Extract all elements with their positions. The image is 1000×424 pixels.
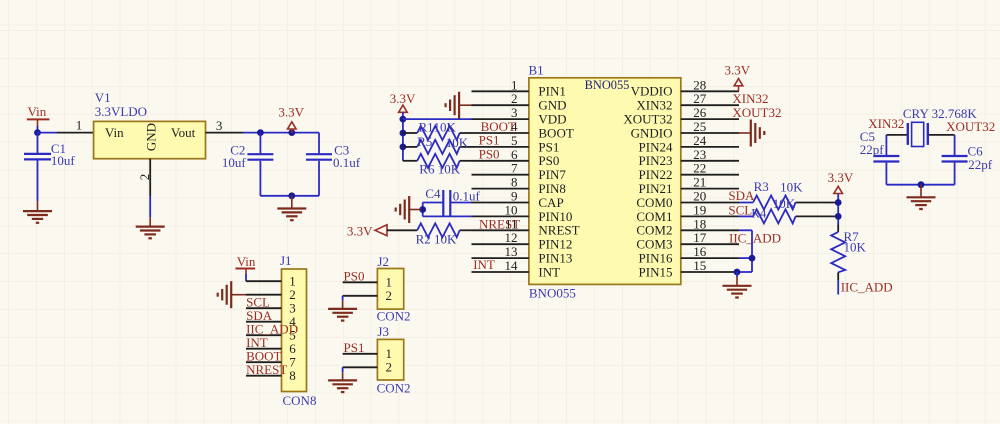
svg-text:8: 8 (289, 368, 296, 383)
ic pin 22 PIN22 (639, 161, 739, 182)
svg-text:22pf: 22pf (860, 142, 885, 157)
power port 3.3V right rail (828, 170, 854, 194)
svg-text:INT: INT (473, 257, 495, 272)
svg-text:25: 25 (693, 119, 706, 134)
svg-text:BNO055: BNO055 (529, 285, 576, 300)
J3 pin 1 (343, 346, 392, 361)
svg-text:19: 19 (693, 202, 706, 217)
svg-text:VDD: VDD (538, 112, 566, 127)
svg-text:INT: INT (538, 264, 560, 279)
power port Vin at J1 (235, 254, 256, 274)
ic pin 17 COM3 (636, 230, 739, 251)
label J1 designator (280, 253, 292, 268)
svg-text:J3: J3 (377, 324, 389, 339)
svg-text:COM0: COM0 (636, 195, 672, 210)
svg-text:26: 26 (693, 105, 707, 120)
capacitor C6 (942, 135, 968, 185)
ic pin 3 VDD (472, 105, 567, 126)
svg-text:3.3V: 3.3V (278, 105, 304, 120)
svg-text:GND: GND (538, 98, 566, 113)
svg-text:SDA: SDA (728, 188, 755, 203)
ic pin 18 COM2 (636, 216, 739, 237)
svg-text:COM1: COM1 (636, 209, 672, 224)
J1 pin 8 (246, 368, 296, 383)
V1 pin name GND (rotated) (144, 123, 159, 151)
svg-text:5: 5 (511, 133, 518, 148)
ground under C1 (23, 201, 52, 223)
svg-text:3: 3 (216, 118, 223, 133)
node crystal ground (918, 181, 925, 188)
net label INT on J1 pin 6 (246, 335, 268, 350)
svg-text:R1: R1 (419, 119, 434, 134)
label V1 designator (95, 90, 147, 119)
svg-text:22: 22 (693, 161, 706, 176)
svg-text:7: 7 (511, 161, 518, 176)
svg-text:2: 2 (137, 174, 152, 181)
resistor R3 (739, 196, 838, 210)
svg-text:Vin: Vin (105, 125, 124, 140)
svg-text:COM3: COM3 (636, 237, 672, 252)
ic pin 1 PIN1 (472, 77, 566, 98)
ground under V1 pin 2 (136, 217, 165, 238)
wire C2 C3 bottom (260, 195, 319, 197)
svg-text:20: 20 (693, 189, 706, 204)
ic pin 16 PIN16 (639, 244, 739, 265)
label R4 10K (751, 196, 796, 221)
label CRY 32.768K (903, 106, 978, 121)
label BNO055 below body (529, 285, 576, 300)
svg-text:PS1: PS1 (479, 133, 500, 148)
ic pin 2 GND (472, 91, 567, 112)
ic pin 21 PIN21 (639, 175, 739, 196)
label R2 10K (416, 231, 457, 246)
wire Vin to J1 pin 1 (245, 274, 247, 282)
J2 pin 1 (343, 275, 392, 290)
svg-text:PIN7: PIN7 (538, 167, 566, 182)
ground under C2/C3 (277, 196, 306, 220)
label R7 10K (844, 229, 867, 255)
ic pin 9 CAP (472, 189, 564, 210)
net label BOOT on J1 pin 7 (246, 349, 281, 364)
svg-text:0.1uf: 0.1uf (453, 189, 481, 204)
svg-text:10uf: 10uf (222, 155, 247, 170)
power port 3.3V arrow at NREST (347, 223, 387, 238)
node pin16 junction (749, 255, 756, 262)
net label INT on pin 14 (473, 257, 495, 272)
svg-text:GNDIO: GNDIO (631, 125, 673, 140)
capacitor C1 (24, 133, 51, 201)
label CON2 of J3 (377, 381, 411, 396)
svg-text:V1: V1 (95, 90, 111, 105)
svg-text:J1: J1 (280, 253, 292, 268)
svg-text:SCL: SCL (728, 202, 752, 217)
node C4 ground (419, 206, 426, 213)
svg-text:2: 2 (386, 360, 393, 375)
resistor R7 (831, 225, 845, 295)
label C3 value 0.1uf (333, 142, 361, 169)
svg-text:3.3V: 3.3V (828, 170, 854, 185)
svg-text:J2: J2 (377, 254, 389, 269)
ground below crystal (907, 185, 936, 209)
label CON8 (283, 393, 317, 408)
svg-text:XIN32: XIN32 (732, 91, 768, 106)
pin number 1 of V1 (76, 118, 83, 133)
connector J1 body (282, 269, 307, 392)
ic pin 26 XOUT32 (623, 105, 739, 126)
resistor R4 (739, 209, 838, 223)
svg-text:10K: 10K (446, 135, 469, 150)
power port 3.3V above C2/C3 (278, 105, 304, 133)
svg-text:10: 10 (505, 202, 518, 217)
label BNO055 title (585, 78, 630, 92)
net label IIC_ADD on J1 pin 5 (246, 322, 298, 337)
wire crystal bottom (886, 184, 954, 186)
svg-text:9: 9 (511, 189, 518, 204)
svg-text:8: 8 (511, 175, 518, 190)
ic B1 BNO055 body (529, 78, 681, 285)
svg-text:R6 10K: R6 10K (419, 162, 460, 177)
resistor R2 (387, 223, 472, 237)
wire 3.3V rail (402, 112, 404, 161)
svg-text:PS0: PS0 (479, 147, 500, 162)
ic pin 27 XIN32 (636, 91, 739, 112)
ic pin 19 COM1 (636, 202, 739, 223)
ic pin 11 NREST (472, 216, 580, 237)
node rail-VDD (400, 116, 407, 123)
svg-text:10K: 10K (780, 180, 803, 195)
V1 pin 2 wire down (149, 159, 151, 218)
node rail-R4 (835, 213, 842, 220)
svg-text:PS1: PS1 (344, 340, 365, 355)
svg-text:0.1uf: 0.1uf (333, 155, 361, 170)
svg-text:10K: 10K (434, 119, 457, 134)
svg-text:10uf: 10uf (51, 153, 76, 168)
ic pin 7 PIN7 (472, 161, 567, 182)
svg-text:NREST: NREST (538, 223, 579, 238)
svg-text:2: 2 (386, 288, 393, 303)
label J3 designator (377, 324, 389, 339)
svg-text:PIN10: PIN10 (538, 209, 572, 224)
power port Vin (top-left) (27, 104, 50, 126)
svg-text:Vin: Vin (237, 254, 256, 269)
svg-text:1: 1 (76, 118, 83, 133)
J1 pin 3 (246, 301, 296, 316)
svg-text:PIN8: PIN8 (538, 181, 565, 196)
net label XOUT32 at crystal (946, 119, 995, 134)
wire J2 pin 2 to ground (342, 296, 344, 301)
svg-text:PIN23: PIN23 (639, 153, 673, 168)
svg-text:COM2: COM2 (636, 223, 672, 238)
svg-text:PIN12: PIN12 (538, 237, 572, 252)
ic pin 15 PIN15 (639, 258, 739, 279)
svg-text:6: 6 (511, 147, 518, 162)
svg-text:R3: R3 (754, 179, 769, 194)
net label NREST on J1 pin 8 (246, 362, 287, 377)
net label XOUT32 on pin 26 (732, 105, 781, 120)
resistor R6 (403, 154, 472, 168)
svg-text:18: 18 (693, 216, 706, 231)
svg-text:B1: B1 (529, 63, 544, 78)
node rail-R1 (400, 130, 407, 137)
svg-text:13: 13 (505, 244, 518, 259)
label R1 10K (419, 119, 457, 134)
svg-text:11: 11 (505, 216, 518, 231)
svg-text:R4: R4 (751, 206, 767, 221)
net label PS0 on J2 pin 1 (344, 268, 365, 283)
label C5 value 22pf (860, 129, 885, 157)
svg-text:XOUT32: XOUT32 (732, 105, 781, 120)
net label XIN32 at crystal (868, 116, 904, 131)
label C1 value 10uf (51, 141, 76, 168)
wire J3 pin 2 to ground (342, 367, 344, 372)
svg-text:BOOT: BOOT (538, 125, 573, 140)
svg-text:C4: C4 (425, 186, 441, 201)
net label BOOT on pin 4 (481, 119, 516, 134)
ground below pin 15 (723, 272, 752, 298)
ground at pin 25 (739, 120, 764, 147)
svg-text:PIN24: PIN24 (639, 139, 673, 154)
net label SCL on J1 pin 3 (246, 295, 270, 310)
net label IIC_ADD on pin 17 (729, 230, 781, 245)
J1 pin 1 (246, 274, 296, 289)
regulator V1 body (94, 121, 206, 158)
svg-text:CON8: CON8 (283, 393, 317, 408)
svg-text:PIN13: PIN13 (538, 251, 572, 266)
node ground attach (288, 192, 295, 199)
svg-text:R5: R5 (417, 134, 432, 149)
svg-text:CAP: CAP (538, 195, 563, 210)
ic pin 23 PIN23 (639, 147, 739, 168)
svg-text:CON2: CON2 (377, 381, 411, 396)
node Vin junction (34, 129, 41, 136)
svg-text:R2 10K: R2 10K (416, 231, 457, 246)
svg-text:Vin: Vin (28, 104, 47, 119)
svg-text:3: 3 (511, 105, 518, 120)
ic pin 20 COM0 (636, 189, 739, 210)
capacitor C3 (306, 133, 332, 196)
svg-text:GND: GND (144, 123, 159, 151)
svg-text:27: 27 (693, 91, 707, 106)
label R3 10K (754, 179, 804, 195)
svg-text:XOUT32: XOUT32 (623, 112, 672, 127)
power port 3.3V above rail (390, 91, 416, 113)
J3 pin 2 (343, 360, 392, 375)
crystal CRY 32.768K (886, 122, 954, 146)
svg-text:3.3VLDO: 3.3VLDO (95, 104, 147, 119)
ic pin 14 INT (472, 258, 561, 279)
wire right rail (837, 194, 839, 225)
svg-text:4: 4 (511, 119, 518, 134)
label C4 value 0.1uf (425, 186, 480, 204)
V1 pin 3 wire to C2/C3 (206, 132, 320, 134)
svg-text:Vout: Vout (171, 125, 196, 140)
svg-text:10K: 10K (773, 196, 796, 211)
resistor R1 (403, 126, 472, 140)
svg-text:3.3V: 3.3V (347, 223, 373, 238)
wire pin 18 down to pins 16 15 (736, 230, 752, 272)
label CON2 of J2 (377, 309, 411, 324)
net label PS1 on pin 5 (479, 133, 500, 148)
svg-text:CON2: CON2 (377, 309, 411, 324)
svg-text:PIN21: PIN21 (639, 181, 673, 196)
svg-text:12: 12 (505, 230, 518, 245)
svg-text:PIN15: PIN15 (639, 264, 673, 279)
wire C4 ground column (423, 203, 472, 217)
svg-text:23: 23 (693, 147, 706, 162)
ic pin 13 PIN13 (472, 244, 573, 265)
ground left of C4 (396, 196, 421, 223)
svg-text:PS0: PS0 (538, 153, 559, 168)
J2 pin 2 (343, 288, 392, 303)
ic pin 25 GNDIO (631, 119, 739, 140)
net label PS1 on J3 pin 1 (344, 340, 365, 355)
ic pin 12 PIN12 (472, 230, 573, 251)
net label SDA on J1 pin 4 (246, 308, 273, 323)
pin number 3 of V1 (216, 118, 223, 133)
svg-text:10K: 10K (844, 239, 867, 254)
label C2 value 10uf (222, 142, 247, 169)
capacitor C2 (247, 133, 273, 196)
J1 pin 7 (246, 355, 296, 370)
svg-text:15: 15 (693, 258, 706, 273)
svg-text:IIC_ADD: IIC_ADD (841, 279, 893, 294)
label C6 value 22pf (968, 144, 993, 173)
wire rail to VDD pin 3 (403, 118, 472, 120)
capacitor C4 (423, 190, 472, 216)
ground left of IC pin 2 (446, 92, 472, 119)
svg-text:XIN32: XIN32 (636, 98, 672, 113)
node rail-R5 (400, 144, 407, 151)
ic pin 28 VDDIO (631, 77, 739, 98)
svg-text:PIN16: PIN16 (639, 251, 673, 266)
ic pin 10 PIN10 (472, 202, 573, 223)
net label SCL on pin 19 (728, 202, 752, 217)
ground at J3 pin 2 (328, 372, 357, 392)
power port 3.3V at pin 28 (724, 63, 750, 92)
svg-text:22pf: 22pf (968, 157, 993, 172)
svg-text:VDDIO: VDDIO (631, 84, 673, 99)
resistor R5 (403, 140, 472, 154)
J1 pin 5 (246, 328, 296, 343)
net label XIN32 on pin 27 (732, 91, 768, 106)
V1 pin name Vout (171, 125, 196, 140)
label J2 designator (377, 254, 389, 269)
J1 pin 2 (246, 287, 296, 302)
label R6 10K (419, 162, 460, 177)
capacitor C5 (873, 135, 899, 185)
svg-text:BNO055: BNO055 (585, 78, 630, 92)
svg-text:PIN22: PIN22 (639, 167, 673, 182)
svg-text:PS0: PS0 (344, 268, 365, 283)
net label PS0 on pin 6 (479, 147, 500, 162)
node 3.3V stem (288, 129, 295, 136)
svg-text:PS1: PS1 (538, 139, 559, 154)
ic pin 8 PIN8 (472, 175, 566, 196)
svg-text:NREST: NREST (246, 362, 287, 377)
svg-text:XOUT32: XOUT32 (946, 119, 995, 134)
node rail-R3 (835, 199, 842, 206)
net label SDA on pin 20 (728, 188, 755, 203)
ic pin 6 PS0 (472, 147, 560, 168)
net label IIC_ADD at R7 bottom (841, 279, 893, 294)
svg-text:28: 28 (693, 77, 706, 92)
svg-text:IIC_ADD: IIC_ADD (729, 230, 781, 245)
svg-text:17: 17 (693, 230, 707, 245)
svg-text:24: 24 (693, 133, 707, 148)
svg-text:3.3V: 3.3V (724, 63, 750, 78)
ground at J2 pin 2 (328, 301, 357, 321)
pin number 2 of V1 (rotated) (137, 174, 152, 181)
node C2 top (257, 129, 264, 136)
V1 pin name Vin (105, 125, 124, 140)
svg-text:2: 2 (511, 91, 518, 106)
svg-text:21: 21 (693, 175, 706, 190)
connector J3 body (377, 339, 403, 380)
svg-text:16: 16 (693, 244, 707, 259)
node pin15 junction (734, 269, 741, 276)
ic pin 4 BOOT (472, 119, 574, 140)
label B1 designator (529, 63, 544, 78)
svg-text:14: 14 (505, 258, 519, 273)
label R5 10K (417, 134, 469, 150)
wire Vin node to V1 pin 1 (38, 132, 94, 134)
ic pin 24 PIN24 (639, 133, 739, 154)
J1 pin 4 (246, 314, 296, 329)
wire Vin port to node (37, 126, 39, 133)
svg-text:1: 1 (511, 77, 518, 92)
J1 pin 6 (246, 341, 296, 356)
ic pin 5 PS1 (472, 133, 560, 154)
connector J2 body (377, 269, 403, 310)
net label NREST on pin 11 (479, 216, 520, 231)
ground at J1 pin 2 (218, 281, 246, 308)
svg-text:PIN1: PIN1 (538, 84, 565, 99)
